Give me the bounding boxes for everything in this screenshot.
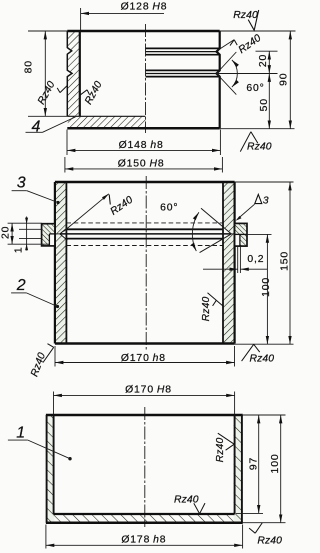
part 4 left outer edge with groove notches [67,31,72,116]
Rz40 rotated mark right wall [218,433,234,444]
svg-text:97: 97 [248,457,259,470]
groove 1 lines (elevation half) [146,47,220,49]
svg-text:3: 3 [17,175,26,192]
part 1 bottom plate hatch [54,514,233,523]
right V faces extended (60 deg) [201,208,231,234]
svg-text:Ø170 h8: Ø170 h8 [121,353,166,364]
ext line from block mid [247,233,272,235]
svg-text:Rz40: Rz40 [174,495,199,506]
dim D178h8 line [46,544,243,546]
groove 2 lines (elevation half) [146,69,220,71]
part 4 bottom edge [67,127,219,130]
part 1 left wall hatch [46,415,55,523]
dim 1 line with outside arrows [26,217,28,251]
dim D178h8 extensions [45,525,47,549]
svg-text:4: 4 [32,119,41,136]
svg-text:100: 100 [270,454,281,474]
svg-text:20: 20 [258,54,269,67]
cavity V wedge in right wall [223,227,232,240]
part 4 left wall section hatch [67,31,80,116]
dim D150H8 extensions [64,157,66,173]
svg-text:Ø150 H8: Ø150 H8 [118,158,165,169]
part 4 top edge [67,30,219,32]
dim 0,2 [203,268,238,270]
right wall section hatch [223,182,235,344]
cavity V wedge in left wall [60,228,67,241]
Rz40 mark on outer wall [60,85,67,92]
dim 100 [266,234,268,344]
part 4 inner bottom line [67,115,145,117]
svg-text:1: 1 [16,424,25,441]
left clamp block [42,224,55,246]
part 1 vertical centerline [144,407,146,527]
bottom edge [55,342,235,345]
dim D170H8 line [54,394,235,396]
60 deg arc [232,60,237,87]
part 1 right wall hatch [234,415,243,523]
part 4 bottom plate section hatch [68,116,146,127]
svg-text:50: 50 [259,98,270,111]
svg-text:90: 90 [279,73,290,86]
svg-text:Rz40: Rz40 [250,353,275,364]
svg-text:Ø148 h8: Ø148 h8 [119,140,164,151]
left wall section hatch (parts 3 and 2) [55,182,67,344]
part 1 outer bottom edge [46,521,243,524]
Rz40 mark on right bore wall [208,293,224,306]
part 1 inner bottom edge [54,513,235,515]
right edge groove notch wedges [217,48,220,54]
svg-text:Rz40: Rz40 [257,536,282,547]
flatness triangle D3 label [255,194,262,203]
svg-text:2: 2 [16,277,26,294]
part 4 bore edge [79,31,81,116]
top edge [55,181,235,183]
dim D128H8 extension [80,8,82,30]
left dims 20 and 1 extensions [8,222,42,224]
Rz40 rotated mark bottom left [43,347,54,362]
svg-text:60°: 60° [160,203,178,214]
Rz40 mark below bottom right [240,132,251,152]
Rz40 mark bottom right [249,528,255,533]
part 1 inner left edge [53,415,55,514]
part joint lines in walls [55,233,60,235]
svg-text:Rz40: Rz40 [233,10,258,21]
assembly vertical centerline [145,176,147,351]
cavity slit lines [66,228,222,230]
left V faces [60,228,67,241]
svg-text:100: 100 [261,277,272,297]
svg-text:1: 1 [14,246,25,253]
dim 20 line [11,223,13,244]
part 1 inner right edge [234,415,236,514]
dim D128H8 line [81,12,164,14]
part 4 vertical centerline [145,24,147,133]
dim D150H8 line [65,168,223,170]
svg-text:20: 20 [0,226,11,239]
svg-text:80: 80 [24,60,35,73]
svg-text:Rz40: Rz40 [215,438,226,463]
right extension lines [235,181,294,183]
right extension lines [243,414,286,416]
dim 20 line [268,51,270,73]
svg-text:Ø178 h8: Ø178 h8 [121,535,166,546]
dim D148h8 extensions [66,130,68,156]
svg-text:Ø128 H8: Ø128 H8 [121,1,168,12]
0,2 step extension lines [237,246,239,273]
svg-text:Rz40: Rz40 [201,297,212,322]
groove notch white wedges in left wall [67,48,71,55]
dim 80 line [44,31,46,116]
right clamp block [235,223,247,246]
part 1 rim top edge [46,414,243,416]
dim 90 line [289,31,291,129]
svg-text:60°: 60° [246,83,264,94]
svg-text:3: 3 [263,194,269,206]
svg-text:0,2: 0,2 [247,254,264,265]
part 1 outer right edge [241,415,243,523]
Rz40 mark bottom right [242,344,254,361]
60 deg arc [192,212,199,251]
dim 80 extension lines [28,30,67,32]
svg-text:Ø170 H8: Ø170 H8 [125,384,172,395]
dim 97 [258,415,260,513]
dim 100 [280,415,282,523]
dim D170h8 line [55,362,235,364]
Rz40 leader at groove 1 [217,40,234,51]
part 4 right edge with notches [217,31,220,128]
hidden dashed cavity lines [66,222,223,224]
Rz40 leader from cavity [64,194,109,232]
dim D148h8 line [67,149,220,151]
60 deg angle lines at groove 2 [217,52,237,74]
right extension lines [220,30,296,32]
dim D170h8 extensions [54,346,56,367]
Rz40 mark on bore wall [80,90,87,95]
svg-text:150: 150 [280,251,291,271]
left wall edges [54,182,56,344]
right wall edges [222,182,224,344]
svg-text:Rz40: Rz40 [247,141,272,152]
dim 150 [289,182,291,344]
dim D170H8 extensions [53,392,55,415]
dim 50 line [268,74,270,129]
part 1 outer left edge [46,415,48,523]
